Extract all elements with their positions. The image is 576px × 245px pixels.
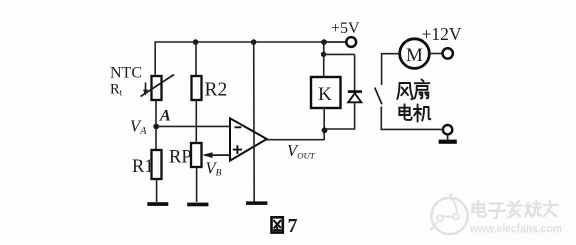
resistor R2 (192, 42, 202, 100)
terminal +12V (443, 48, 453, 58)
wire switch bottom (381, 107, 443, 130)
wire op-amp output Vout (267, 139, 324, 141)
terminal motor return (443, 125, 452, 134)
motor M (400, 39, 430, 69)
label RP (169, 148, 192, 168)
svg-text:+5V: +5V (331, 20, 360, 37)
node junction top relay (321, 39, 327, 45)
svg-text:7: 7 (288, 215, 298, 237)
label A (159, 108, 171, 125)
wire +5V stub (324, 41, 346, 43)
label figure 7 tu (272, 215, 298, 237)
label Rt (110, 82, 123, 99)
switch S relay contact (375, 88, 382, 105)
wire RP bottom (196, 167, 198, 202)
potentiometer RP (191, 143, 230, 167)
wire diode bottom (324, 103, 354, 129)
node A (153, 124, 159, 130)
label fan motor fengshan (397, 80, 430, 122)
svg-text:M: M (406, 45, 423, 66)
node junction top R2 (193, 39, 199, 45)
op-amp U1 (230, 118, 267, 160)
ground op-amp (246, 201, 267, 205)
svg-text:NTC: NTC (110, 64, 142, 81)
svg-text:R1: R1 (132, 157, 154, 177)
relay K (311, 77, 341, 108)
wire relay branch vertical (323, 42, 325, 77)
svg-text:www.elecfans.com: www.elecfans.com (469, 222, 562, 236)
thermistor Rt (141, 75, 175, 101)
resistor R1 (152, 150, 162, 179)
diode VD (348, 92, 362, 103)
label VOUT (287, 141, 316, 161)
node junction output relay diode (322, 127, 328, 133)
wire Rt bottom to node A to R1 (155, 100, 157, 150)
wire motor left (382, 54, 401, 85)
node junction top op-amp supply (251, 39, 257, 45)
label VA (130, 117, 147, 138)
svg-text:K: K (318, 84, 332, 105)
wire node A to op-amp inverting input (156, 125, 230, 127)
node junction diode tap (321, 52, 326, 57)
watermark text dianzifashaoyou (473, 201, 559, 218)
terminal +5V (346, 37, 356, 47)
label NTC (110, 64, 142, 81)
svg-text:RP: RP (169, 148, 192, 168)
label R1 (132, 157, 154, 177)
label +12V (422, 24, 462, 44)
label +5V (331, 20, 360, 37)
svg-text:A: A (159, 108, 171, 125)
wire R1 bottom (156, 179, 158, 202)
label R2 (205, 80, 228, 101)
label VB (206, 159, 222, 179)
wire R2 bottom to RP top (195, 100, 197, 143)
wire left drop to NTC (154, 41, 156, 76)
wire diode top vertical (354, 54, 356, 91)
wire op-amp supply vertical (253, 42, 256, 202)
ground R1 (147, 202, 168, 206)
watermark logo elecfans (431, 195, 468, 234)
ground motor return (439, 135, 457, 144)
wire diode top horizontal (324, 53, 355, 55)
wire relay bottom to junction (323, 108, 325, 140)
wire top rail (155, 41, 346, 43)
wire motor right (429, 53, 443, 55)
svg-text:+12V: +12V (422, 24, 462, 44)
svg-text:R2: R2 (205, 80, 228, 101)
ground RP (187, 203, 208, 207)
